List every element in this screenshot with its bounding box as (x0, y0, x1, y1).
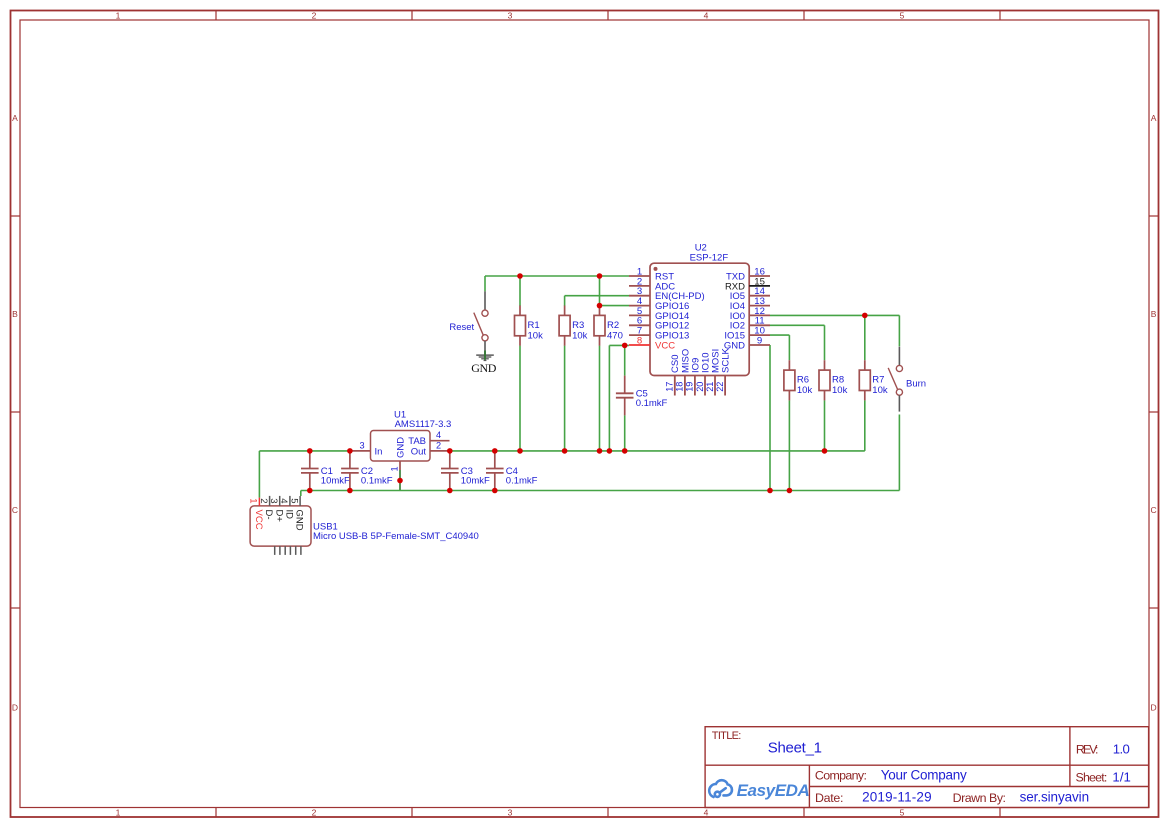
USB1 pin 3 stub (279, 496, 281, 506)
wire R2 top vertical (599, 276, 601, 306)
frame row letters right (1151, 113, 1157, 713)
USB1 pin 5 stub (299, 496, 301, 506)
svg-text:10k: 10k (832, 385, 848, 396)
U2 pin 14 stub (749, 295, 770, 297)
U2 pin 8 stub (629, 344, 650, 346)
frame column numbers top (116, 10, 905, 20)
svg-text:ser.sinyavin: ser.sinyavin (1020, 790, 1090, 805)
USB1 pin 1 stub (258, 498, 260, 506)
U2 pin 12 stub (749, 314, 770, 316)
U1 pin 4 TAB stub (430, 440, 450, 442)
frame column numbers bottom (116, 808, 905, 818)
svg-text:Sheet:: Sheet: (1076, 771, 1108, 785)
U2 pin 5 stub (629, 314, 650, 316)
svg-text:AMS1117-3.3: AMS1117-3.3 (395, 419, 452, 430)
svg-text:Reset: Reset (449, 322, 474, 333)
wire R2 bottom to VCC rail (599, 346, 601, 451)
svg-text:C: C (12, 505, 18, 515)
svg-text:470: 470 (607, 331, 623, 342)
svg-text:0.1mkF: 0.1mkF (506, 476, 538, 487)
svg-text:10mkF: 10mkF (321, 476, 350, 487)
frame column ticks (216, 11, 1000, 818)
U2 pin 15 stub (749, 285, 770, 287)
U1 pin 1 GND stub (399, 461, 401, 470)
U2 pin 13 stub (749, 305, 770, 307)
svg-text:1: 1 (116, 10, 121, 20)
U2 pin 19 stub (694, 376, 696, 396)
svg-text:Micro USB-B 5P-Female-SMT_C409: Micro USB-B 5P-Female-SMT_C40940 (313, 531, 479, 542)
svg-text:2: 2 (312, 10, 317, 20)
U2 pin 4 stub (629, 305, 650, 307)
U2 pin 16 stub (749, 275, 770, 277)
svg-text:Sheet_1: Sheet_1 (768, 739, 822, 756)
capacitor C3 (441, 451, 490, 491)
svg-text:3: 3 (359, 440, 364, 450)
USB1 shield pins (275, 546, 301, 555)
svg-text:21: 21 (705, 382, 715, 392)
svg-text:4: 4 (704, 808, 709, 818)
wire IO15 pin10 net to R6 (770, 335, 789, 490)
svg-text:D-: D- (263, 510, 274, 520)
svg-text:A: A (12, 113, 18, 123)
U1 pin 3 In stub (350, 450, 370, 452)
switch Reset (449, 291, 488, 357)
capacitor C1 (301, 451, 350, 491)
U2 pin 6 stub (629, 324, 650, 326)
svg-text:10mkF: 10mkF (461, 476, 490, 487)
svg-text:Drawn By:: Drawn By: (953, 791, 1006, 805)
svg-text:R8: R8 (832, 375, 844, 386)
svg-text:R7: R7 (872, 375, 884, 386)
svg-text:8: 8 (637, 335, 642, 346)
wire GND rail (301, 491, 900, 497)
svg-text:5: 5 (900, 808, 905, 818)
resistor R1 (515, 306, 544, 346)
wire R1 bottom to VCC rail (519, 346, 521, 451)
svg-text:19: 19 (685, 382, 695, 392)
svg-text:5: 5 (900, 10, 905, 20)
svg-text:18: 18 (675, 382, 685, 392)
svg-text:GND: GND (471, 361, 496, 375)
wire GPIO16 net pin4 to R2 (600, 305, 630, 307)
wire EN(CH-PD) net pin3 to R3 (565, 296, 629, 306)
svg-text:D: D (1151, 703, 1157, 713)
U2 pin 17 stub (674, 376, 676, 396)
frame row letters left (12, 113, 18, 713)
wire U1 pin1 to GND rail (399, 470, 401, 491)
svg-text:17: 17 (665, 382, 675, 392)
frame row ticks (11, 216, 1159, 608)
USB1 pin 4 stub (289, 496, 291, 506)
svg-text:4: 4 (278, 498, 289, 504)
svg-text:2: 2 (436, 440, 441, 450)
resistor R2 (594, 306, 623, 346)
svg-text:1/1: 1/1 (1112, 769, 1131, 784)
svg-text:10k: 10k (797, 385, 813, 396)
svg-text:3: 3 (508, 10, 513, 20)
svg-text:0.1mkF: 0.1mkF (636, 398, 668, 409)
svg-text:3: 3 (268, 498, 279, 503)
regulator U1 AMS1117-3.3 body (371, 431, 431, 462)
svg-text:B: B (12, 309, 18, 319)
svg-text:2: 2 (258, 498, 269, 503)
svg-text:A: A (1151, 113, 1157, 123)
wire VCC 3.3V rail left (USB to U1 In) (259, 451, 350, 498)
wire VCC pin8 net (609, 345, 629, 451)
svg-text:3: 3 (508, 808, 513, 818)
U2 pin 20 stub (704, 376, 706, 396)
switch Burn (888, 347, 926, 412)
svg-text:D+: D+ (273, 510, 284, 523)
svg-text:R2: R2 (607, 320, 619, 331)
U2 pin 10 stub (749, 334, 770, 336)
wire GND pin9 to GND rail (769, 345, 771, 491)
svg-text:B: B (1151, 309, 1157, 319)
svg-text:20: 20 (695, 382, 705, 392)
svg-text:R3: R3 (572, 320, 584, 331)
U2 pin 3 stub (629, 295, 650, 297)
svg-text:R1: R1 (528, 320, 540, 331)
resistor R7 (859, 360, 888, 400)
resistor R6 (784, 360, 813, 400)
svg-text:1: 1 (116, 808, 121, 818)
wire Reset switch to GND symbol (484, 351, 486, 361)
wire R3 bottom to VCC rail (564, 346, 566, 451)
op-amp U2 ESP-12F body (650, 263, 749, 375)
svg-text:Company:: Company: (815, 769, 867, 783)
wire IO2 pin11 net to R8 (770, 325, 825, 451)
U2 pin 9 stub (749, 344, 770, 346)
U1 pin 2 Out stub (430, 450, 450, 452)
svg-text:1: 1 (389, 466, 399, 471)
svg-text:REV:: REV: (1076, 743, 1099, 757)
svg-text:Your Company: Your Company (881, 767, 967, 782)
svg-text:4: 4 (436, 430, 441, 440)
svg-text:10k: 10k (528, 331, 544, 342)
svg-text:Burn: Burn (906, 379, 926, 390)
resistor R8 (819, 360, 848, 400)
U2 pin 22 stub (724, 376, 726, 396)
svg-text:C: C (1151, 505, 1157, 515)
capacitor C2 (341, 451, 393, 491)
title block outline (705, 727, 1149, 808)
ground symbol (476, 351, 494, 361)
capacitor C5 (616, 376, 668, 416)
svg-text:10k: 10k (872, 385, 888, 396)
svg-text:EasyEDA: EasyEDA (737, 781, 810, 800)
svg-text:VCC: VCC (655, 340, 675, 351)
svg-text:2: 2 (312, 808, 317, 818)
junction dots (307, 273, 868, 493)
svg-text:VCC: VCC (253, 510, 264, 530)
wire R1 top to RST net (519, 276, 521, 306)
svg-text:D: D (12, 703, 18, 713)
svg-text:10k: 10k (572, 331, 588, 342)
svg-text:5: 5 (288, 498, 299, 503)
U2 pin 21 stub (714, 376, 716, 396)
svg-text:4: 4 (704, 10, 709, 20)
svg-text:GND: GND (294, 510, 305, 531)
svg-text:ESP-12F: ESP-12F (690, 252, 729, 263)
U2 pin 18 stub (684, 376, 686, 396)
svg-text:R6: R6 (797, 375, 809, 386)
capacitor C4 (486, 451, 538, 491)
svg-text:TITLE:: TITLE: (712, 730, 742, 742)
U2 pin 7 stub (629, 334, 650, 336)
EasyEDA logo cloud (709, 780, 732, 797)
wire VCC 3.3V rail right (U1 Out to R7) (450, 400, 865, 451)
svg-text:22: 22 (715, 382, 725, 392)
svg-text:0.1mkF: 0.1mkF (361, 476, 393, 487)
U2 pin 1 stub (629, 275, 650, 277)
svg-text:Date:: Date: (815, 791, 844, 805)
wire IO0 pin12 net to R7/Burn (770, 315, 899, 490)
connector USB1 body (250, 506, 311, 546)
U2 pin 2 stub (629, 285, 650, 287)
U2 pin 11 stub (749, 324, 770, 326)
svg-text:1: 1 (248, 498, 259, 503)
svg-text:SCLK: SCLK (721, 348, 732, 373)
svg-text:1.0: 1.0 (1113, 741, 1130, 756)
resistor R3 (559, 306, 588, 346)
svg-text:2019-11-29: 2019-11-29 (862, 790, 932, 805)
svg-text:In: In (375, 446, 383, 457)
U2 pin1 mark (654, 267, 658, 271)
svg-text:9: 9 (757, 335, 762, 346)
svg-text:ID: ID (284, 510, 295, 520)
svg-text:GND: GND (395, 437, 406, 458)
svg-text:Out: Out (411, 446, 427, 457)
USB1 pin 2 stub (269, 496, 271, 506)
wire RST net (pin1 to R1/R2/Reset) (485, 276, 629, 291)
